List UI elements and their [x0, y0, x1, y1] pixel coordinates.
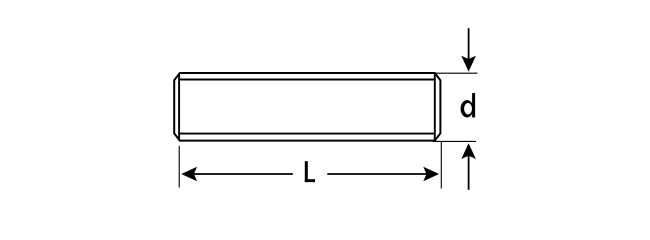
left chamfer line [178, 74, 180, 140]
extension line bottom (d) [433, 140, 476, 142]
extension line left (L) [178, 146, 180, 188]
label L [305, 161, 315, 182]
L dimension line left segment + arrow [193, 173, 293, 175]
L dimension line right segment + arrow [327, 173, 427, 175]
thread minor diameter top line [179, 79, 435, 81]
thread minor diameter bottom line [179, 133, 435, 135]
extension line right (L) [440, 142, 442, 189]
d dimension bottom arrow [468, 155, 470, 190]
stud body outline (chamfered rod) [174, 73, 440, 141]
label d [461, 93, 476, 117]
extension line top (d) [436, 72, 478, 74]
right chamfer line [434, 74, 436, 140]
d dimension top arrow [468, 28, 470, 60]
